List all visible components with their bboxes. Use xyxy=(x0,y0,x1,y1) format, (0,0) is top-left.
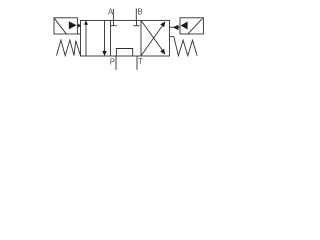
spring left xyxy=(57,40,81,56)
X diagonal P to B (right square) xyxy=(141,20,162,50)
wire box-bottom ledge left xyxy=(77,33,80,35)
divider centre/right square xyxy=(140,20,142,56)
solenoid right diagonal xyxy=(188,18,203,33)
down arrow shaft (left square) xyxy=(104,20,106,51)
svg-text:A: A xyxy=(108,8,114,17)
port line T xyxy=(136,56,138,70)
P-T bypass arch (centre square) xyxy=(116,49,132,57)
svg-text:P: P xyxy=(110,58,115,67)
port line A xyxy=(112,9,114,20)
port line P xyxy=(115,56,117,70)
svg-text:B: B xyxy=(137,7,142,16)
blocked bar A xyxy=(111,25,117,27)
spring right xyxy=(174,37,197,56)
wire body to solenoid-right xyxy=(170,26,181,28)
wire solenoid-left to body xyxy=(77,25,80,27)
svg-text:T: T xyxy=(138,57,143,66)
port line B xyxy=(135,9,137,21)
solenoid left diagonal xyxy=(54,18,66,34)
X arrowhead to B xyxy=(160,49,165,55)
blocked bar B xyxy=(133,25,140,27)
stub port A (centre square) xyxy=(112,20,114,25)
solenoid box left xyxy=(54,18,77,34)
stub port B (centre square) xyxy=(136,20,138,25)
X diagonal A to T (right square) xyxy=(141,26,163,56)
solenoid arrow right xyxy=(181,22,188,30)
push arrow right (body edge) xyxy=(173,25,179,30)
solenoid arrow left xyxy=(69,21,77,29)
push arrow left (body edge) xyxy=(78,24,81,28)
valve body envelope xyxy=(81,20,170,56)
down arrowhead xyxy=(102,51,107,56)
wire ledge right xyxy=(170,36,174,38)
up arrowhead xyxy=(84,20,88,25)
up arrow shaft (left square) xyxy=(85,24,87,56)
solenoid box right xyxy=(180,18,203,34)
divider left/centre square xyxy=(110,20,112,56)
X arrowhead to T xyxy=(160,21,165,27)
